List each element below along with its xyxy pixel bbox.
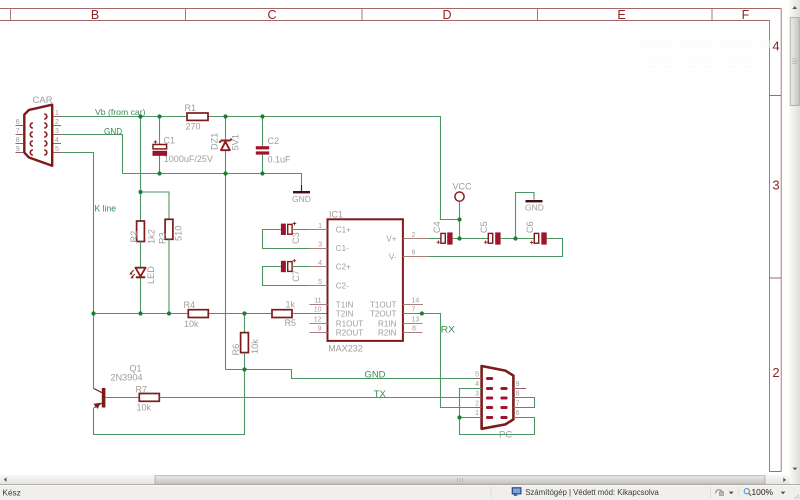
svg-text:C1: C1: [164, 136, 176, 146]
wire R3 down to node row: [168, 239, 170, 313]
connector PC (DB9 male): [475, 366, 526, 441]
svg-text:V+: V+: [386, 234, 396, 243]
svg-text:R7: R7: [136, 384, 148, 394]
svg-text:K line: K line: [95, 204, 117, 215]
wire node row R4 to R5: [208, 313, 272, 315]
IC1 pin leads right: [403, 239, 428, 333]
wire Vb rail from CAR pin1: [61, 116, 187, 118]
svg-text:IC1: IC1: [329, 209, 343, 219]
svg-text:1k2: 1k2: [147, 229, 157, 244]
wire R6 top: [244, 314, 246, 333]
svg-text:R3: R3: [158, 232, 168, 244]
svg-text:1: 1: [318, 223, 322, 230]
supply VCC: [453, 182, 473, 239]
wire R2 R3 top branch: [141, 117, 170, 222]
svg-text:7: 7: [412, 307, 416, 314]
PC pin numbers: [475, 372, 479, 418]
svg-text:7: 7: [516, 401, 520, 408]
svg-text:Számítógép | Védett mód: Kikap: Számítógép | Védett mód: Kikapcsolva: [525, 488, 659, 497]
svg-text:4: 4: [772, 39, 779, 54]
wire C6 to pin6: [428, 239, 563, 257]
svg-text:100%: 100%: [752, 487, 774, 497]
svg-text:2: 2: [412, 232, 416, 239]
svg-text:2: 2: [475, 401, 479, 408]
svg-text:R1: R1: [185, 103, 197, 113]
svg-text:5: 5: [55, 146, 59, 153]
wire RX from pin7 to PC pin2: [403, 314, 482, 408]
CAR pin numbers: [16, 110, 59, 153]
svg-text:5V1: 5V1: [231, 134, 241, 150]
wire C7 to pin4: [292, 266, 309, 268]
wire node row R5 to IC pin10: [292, 313, 328, 315]
svg-text:VCC: VCC: [453, 182, 473, 192]
connector CAR (DB9 female): [16, 105, 62, 166]
svg-text:4: 4: [55, 137, 59, 144]
op-amp substitute: IC U1 MAX232 box: [328, 209, 403, 353]
svg-text:RX: RX: [441, 325, 456, 336]
wire PC pin1 to pin6 via bottom: [460, 418, 535, 435]
svg-text:R1OUT: R1OUT: [336, 319, 363, 328]
diode DZ1 zener 5V1: [210, 133, 241, 151]
ground symbol near C5: [525, 200, 544, 213]
wire Vb rail R1 to corner and down to VCC node: [208, 117, 460, 220]
wire C5 to C6: [501, 238, 535, 240]
svg-text:0.1uF: 0.1uF: [268, 155, 292, 165]
svg-text:B: B: [91, 8, 99, 22]
svg-text:C5: C5: [479, 221, 489, 233]
resistor R3: [165, 219, 173, 239]
svg-text:4: 4: [318, 260, 322, 267]
IC1 left pin names: [336, 225, 363, 337]
wire pin2 to C4: [428, 238, 441, 240]
svg-text:10k: 10k: [184, 319, 199, 329]
svg-text:2: 2: [772, 365, 779, 380]
svg-text:T2IN: T2IN: [336, 309, 354, 318]
svg-text:6: 6: [16, 119, 20, 126]
svg-text:11: 11: [314, 298, 321, 305]
wire C7 to pin5: [263, 267, 310, 286]
svg-text:5: 5: [475, 372, 479, 379]
svg-text:CAR: CAR: [33, 95, 53, 106]
resistor R1: [187, 113, 208, 120]
wire node row K-line to R4: [94, 313, 189, 315]
wire C4 to C5: [453, 238, 489, 240]
wire GND rail: [123, 174, 302, 186]
resistor R4: [188, 310, 208, 318]
svg-text:9: 9: [318, 326, 322, 333]
svg-text:9: 9: [516, 381, 520, 388]
svg-text:510: 510: [174, 226, 184, 241]
svg-text:C4: C4: [432, 221, 442, 233]
svg-text:R2IN: R2IN: [378, 328, 397, 337]
svg-text:DZ1: DZ1: [210, 133, 220, 150]
svg-text:14: 14: [412, 298, 420, 305]
svg-text:PC: PC: [499, 430, 512, 441]
svg-text:C1+: C1+: [336, 225, 351, 234]
svg-text:13: 13: [412, 316, 420, 323]
wire TX from R7 to PC pin3: [159, 397, 481, 399]
wire LED to node row: [140, 278, 142, 314]
capacitor C4: [432, 221, 453, 244]
svg-text:270: 270: [186, 122, 201, 132]
svg-text:GND: GND: [525, 203, 544, 213]
capacitor C7: [281, 259, 301, 282]
svg-text:T1OUT: T1OUT: [370, 300, 397, 309]
resistor R5: [272, 310, 292, 318]
svg-text:GND: GND: [104, 126, 122, 137]
svg-text:1: 1: [55, 110, 59, 117]
svg-text:E: E: [617, 8, 625, 22]
wire PC pin4 pin1 tie: [460, 389, 482, 418]
svg-text:LED: LED: [146, 266, 156, 284]
wire C2 branch: [262, 117, 264, 174]
wire C1 branch: [159, 117, 161, 174]
wire GND branch up: [516, 193, 535, 239]
svg-text:C1-: C1-: [336, 244, 349, 253]
LED: [129, 266, 156, 284]
svg-text:8: 8: [412, 326, 416, 333]
wire Q1 base to R7: [105, 397, 139, 399]
svg-text:3: 3: [318, 241, 322, 248]
svg-text:6: 6: [412, 250, 416, 257]
svg-text:4: 4: [475, 381, 479, 388]
IC1 pin leads left: [310, 230, 328, 333]
capacitor C3: [281, 222, 301, 244]
svg-text:12: 12: [314, 316, 322, 323]
svg-text:GND: GND: [365, 370, 386, 381]
wire Q1 emitter to bottom rail: [94, 370, 245, 435]
svg-text:R2: R2: [129, 231, 139, 243]
svg-text:D: D: [442, 8, 451, 22]
svg-text:10k: 10k: [137, 402, 152, 412]
svg-text:Vb (from car): Vb (from car): [95, 107, 146, 117]
svg-text:7: 7: [16, 128, 20, 135]
svg-text:3: 3: [475, 391, 479, 398]
svg-text:R6: R6: [231, 344, 241, 356]
svg-text:8: 8: [516, 391, 520, 398]
svg-text:1000uF/25V: 1000uF/25V: [164, 154, 213, 164]
wire C3 to pin3: [263, 230, 310, 249]
resistor R7: [139, 394, 159, 402]
svg-text:9: 9: [16, 146, 20, 153]
svg-text:MAX232: MAX232: [328, 343, 363, 353]
svg-text:V-: V-: [389, 252, 397, 261]
svg-text:TX: TX: [374, 389, 387, 400]
svg-text:3: 3: [55, 128, 59, 135]
svg-text:R2OUT: R2OUT: [336, 328, 363, 337]
svg-text:R4: R4: [184, 300, 196, 310]
GHOST: [641, 40, 770, 71]
svg-text:R1IN: R1IN: [378, 319, 397, 328]
svg-text:6: 6: [516, 410, 520, 417]
transistor Q1 2N3904: [94, 314, 143, 409]
svg-text:T2OUT: T2OUT: [370, 309, 397, 318]
wire K line from CAR pin5: [61, 153, 94, 314]
IC1 right pin names: [370, 234, 397, 337]
svg-text:2: 2: [55, 119, 59, 126]
wire DZ1 branch: [225, 117, 227, 370]
svg-text:1k: 1k: [286, 300, 296, 310]
capacitor C5: [479, 221, 500, 244]
wire C3 to pin1: [292, 229, 309, 231]
svg-text:10: 10: [314, 307, 322, 314]
wire R2 to LED: [140, 242, 142, 268]
svg-text:8: 8: [16, 137, 20, 144]
svg-text:2N3904: 2N3904: [110, 372, 142, 382]
wire GND run to PC pin5: [226, 370, 482, 379]
svg-text:C3: C3: [291, 232, 301, 244]
wire R6 bottom to GND run: [244, 353, 246, 370]
svg-text:C2+: C2+: [336, 262, 351, 271]
svg-text:F: F: [742, 8, 750, 22]
svg-text:1: 1: [475, 410, 479, 417]
svg-text:C2-: C2-: [336, 281, 349, 290]
IC1 pin numbers: [314, 223, 322, 333]
svg-text:Kész: Kész: [2, 487, 20, 497]
resistor R6: [241, 333, 249, 353]
svg-text:C2: C2: [268, 136, 280, 146]
svg-text:C6: C6: [525, 221, 535, 233]
capacitor C6: [525, 221, 547, 244]
svg-text:GND: GND: [292, 194, 311, 204]
capacitor C2: [256, 136, 291, 165]
svg-text:3: 3: [772, 178, 779, 193]
svg-text:5: 5: [318, 279, 322, 286]
ground symbol near C2: [292, 185, 311, 204]
resistor R2: [137, 221, 145, 242]
svg-text:10k: 10k: [250, 339, 260, 354]
wire PC pin8 pin7 jumper: [513, 398, 534, 408]
svg-text:C: C: [267, 8, 276, 22]
svg-text:C7: C7: [291, 270, 301, 282]
capacitor C1: [153, 136, 213, 165]
svg-text:T1IN: T1IN: [336, 300, 354, 309]
wire GND from CAR pin3: [61, 135, 123, 174]
svg-text:R5: R5: [285, 318, 297, 328]
